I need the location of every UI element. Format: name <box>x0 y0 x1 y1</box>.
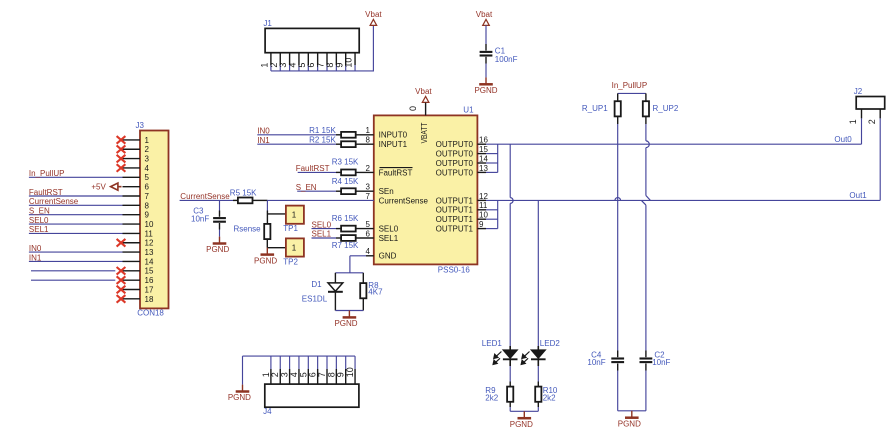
svg-text:9: 9 <box>145 211 150 220</box>
svg-text:10: 10 <box>344 58 354 68</box>
J3 pin 18 stub <box>123 298 141 300</box>
wire J4 bus <box>243 355 356 357</box>
svg-text:PGND: PGND <box>228 393 251 402</box>
svg-text:SEL0: SEL0 <box>379 225 399 234</box>
svg-text:10: 10 <box>345 367 355 377</box>
J1 pin 9 stub <box>345 53 347 65</box>
resistor R8 <box>362 273 364 283</box>
wire GND tee to D1 and R8 <box>335 272 363 274</box>
svg-text:R7 15K: R7 15K <box>332 241 359 250</box>
wire Out1 down to LED2 <box>537 200 539 346</box>
wire TP2 connection <box>267 247 286 249</box>
svg-text:1: 1 <box>292 244 297 253</box>
LED1 emission arrows <box>493 352 501 365</box>
J3 pin 6 stub <box>123 186 141 188</box>
J1 pin 4 wire to bus <box>298 65 300 71</box>
J3 pin 10 stub <box>123 223 141 225</box>
svg-text:VBATT: VBATT <box>420 123 429 144</box>
wire net IN1 to R2 <box>257 143 336 145</box>
J3 pin 14 stub <box>123 260 141 262</box>
svg-text:10: 10 <box>479 211 488 220</box>
svg-text:IN0: IN0 <box>29 244 42 253</box>
wire D1 R8 bottom rail <box>335 310 363 312</box>
wire J2 pin 2 to Out1 <box>879 118 881 200</box>
J4 pin 2 wire to bus <box>279 356 281 369</box>
svg-text:PGND: PGND <box>510 420 533 429</box>
wire In_PullUP rail <box>618 92 646 94</box>
svg-text:IN1: IN1 <box>29 253 42 262</box>
svg-text:1: 1 <box>292 211 297 220</box>
J1 pin 1 wire to bus <box>270 65 272 71</box>
svg-text:R_UP1: R_UP1 <box>582 104 608 113</box>
svg-text:OUTPUT0: OUTPUT0 <box>436 159 474 168</box>
svg-text:FaultRST: FaultRST <box>296 164 330 173</box>
J4 pin 9 stub <box>345 369 347 384</box>
resistor Rsense <box>266 211 268 225</box>
svg-text:R5 15K: R5 15K <box>230 189 257 198</box>
wire net Out0 <box>477 143 486 145</box>
J1 pin 1 stub <box>270 53 272 65</box>
svg-text:Vbat: Vbat <box>365 10 382 19</box>
svg-text:R6 15K: R6 15K <box>332 214 359 223</box>
svg-text:2: 2 <box>867 119 877 124</box>
svg-text:SEL1: SEL1 <box>29 225 49 234</box>
J4 pin 7 wire to bus <box>326 356 328 369</box>
svg-text:10nF: 10nF <box>587 358 605 367</box>
wire net FaultRST at J3 pin 7 <box>29 195 123 197</box>
wire OUTPUT0 bracket pins 15 14 13 <box>477 153 486 155</box>
wire LED1 to R9 <box>509 366 511 382</box>
J1 pin 3 wire to bus <box>289 65 291 71</box>
no-connect X on J3 pin 18 <box>117 295 126 303</box>
test point TP1 <box>286 206 304 224</box>
svg-text:IN1: IN1 <box>257 136 270 145</box>
svg-text:2: 2 <box>145 145 150 154</box>
svg-text:5: 5 <box>145 173 150 182</box>
no-connect X on J3 pin 15 <box>117 267 126 275</box>
svg-text:7: 7 <box>145 192 150 201</box>
J3 pin 5 stub <box>123 176 141 178</box>
resistor R1 <box>336 134 341 136</box>
svg-text:2: 2 <box>366 164 371 173</box>
svg-text:4: 4 <box>145 164 150 173</box>
wire R_UP2 net down to C2 <box>641 200 646 205</box>
wire U1 GND pin 4 <box>366 255 374 257</box>
ground PGND at C3 <box>219 237 221 243</box>
node CurrentSense junction at Rsense <box>266 200 268 210</box>
capacitor C2 <box>645 351 647 358</box>
LED LED1 <box>509 346 511 350</box>
resistor R_UP1 <box>617 93 619 101</box>
overline on FaultRST pin name <box>380 167 413 169</box>
capacitor C1 <box>485 44 487 51</box>
J1 pin 4 stub <box>298 53 300 65</box>
svg-text:LED1: LED1 <box>482 339 503 348</box>
ground PGND at C1 <box>485 77 487 83</box>
resistor R4 <box>336 190 341 192</box>
svg-text:S_EN: S_EN <box>29 207 50 216</box>
J1 pin 9 wire to bus <box>345 65 347 71</box>
wire R5 to U1 pin 7 <box>267 199 373 201</box>
no-connect X on J3 pin 17 <box>117 286 126 294</box>
capacitor C3 <box>219 200 221 210</box>
svg-text:2k2: 2k2 <box>543 394 556 403</box>
diode D1 ES1DL <box>334 273 336 283</box>
ground PGND at Rsense <box>266 248 268 254</box>
svg-text:9: 9 <box>479 220 484 229</box>
svg-text:OUTPUT0: OUTPUT0 <box>436 150 474 159</box>
svg-text:PGND: PGND <box>474 86 497 95</box>
svg-text:GND: GND <box>379 252 397 261</box>
svg-text:PGND: PGND <box>206 245 229 254</box>
svg-text:1: 1 <box>366 126 371 135</box>
svg-text:0: 0 <box>408 106 418 111</box>
svg-text:R1 15K: R1 15K <box>309 126 336 135</box>
connector J1 body <box>265 28 359 52</box>
svg-text:11: 11 <box>145 229 154 238</box>
op-amp U1 body PSS0-16 <box>374 115 478 264</box>
svg-text:12: 12 <box>145 239 154 248</box>
no-connect X on J3 pin 12 <box>117 239 126 247</box>
resistor R3 <box>336 171 341 173</box>
LED2 emission arrows <box>521 352 529 365</box>
svg-text:SEL0: SEL0 <box>312 220 332 229</box>
svg-text:7: 7 <box>366 192 371 201</box>
svg-text:TP2: TP2 <box>283 258 298 267</box>
svg-text:FaultRST: FaultRST <box>29 188 63 197</box>
wire net In_PullUP at J3 pin 5 <box>29 176 123 178</box>
wire net S_EN to R4 <box>297 190 336 192</box>
svg-text:11: 11 <box>479 201 488 210</box>
svg-text:R2 15K: R2 15K <box>309 136 336 145</box>
svg-text:Out0: Out0 <box>834 135 852 144</box>
svg-text:15: 15 <box>145 267 154 276</box>
J3 pin 8 stub <box>123 204 141 206</box>
J3 pin 11 stub <box>123 232 141 234</box>
svg-text:OUTPUT1: OUTPUT1 <box>436 225 474 234</box>
wire OUTPUT1 bracket pins 11 10 9 <box>477 209 486 211</box>
J3 pin 17 stub <box>123 289 141 291</box>
svg-text:+5V: +5V <box>91 182 106 191</box>
J4 pin 8 stub <box>335 369 337 384</box>
svg-text:10nF: 10nF <box>652 358 670 367</box>
svg-text:17: 17 <box>145 285 154 294</box>
J4 pin 2 stub <box>279 369 281 384</box>
svg-text:8: 8 <box>145 201 150 210</box>
J4 pin 1 wire to bus <box>270 356 272 369</box>
J1 pin 7 wire to bus <box>326 65 328 71</box>
resistor R7 <box>336 237 341 239</box>
wire net SEL0 at J3 pin 10 <box>29 223 123 225</box>
wire stub at J3 pin 15 <box>31 270 115 272</box>
svg-text:OUTPUT1: OUTPUT1 <box>436 206 474 215</box>
J4 pin 8 wire to bus <box>335 356 337 369</box>
U1 pin 0 stub VBATT <box>425 103 427 116</box>
capacitor C4 <box>617 351 619 358</box>
svg-text:10nF: 10nF <box>191 215 209 224</box>
J1 pin 6 stub <box>317 53 319 65</box>
svg-text:PSS0-16: PSS0-16 <box>438 266 471 275</box>
wire net SEL1 at J3 pin 11 <box>29 232 123 234</box>
svg-text:15: 15 <box>479 145 488 154</box>
wire CurrentSense to R5 <box>180 199 233 201</box>
test point TP2 <box>286 238 304 256</box>
wire C1 to PGND <box>485 64 487 78</box>
J3 pin 9 stub <box>123 214 141 216</box>
svg-text:CurrentSense: CurrentSense <box>29 197 79 206</box>
ground PGND at C4 C2 <box>631 411 633 417</box>
wire Out0 down to LED1 with hop over Out1 <box>509 144 511 197</box>
svg-text:R_UP2: R_UP2 <box>653 104 679 113</box>
svg-text:TP1: TP1 <box>283 224 298 233</box>
J1 pin 8 wire to bus <box>335 65 337 71</box>
svg-text:18: 18 <box>145 295 154 304</box>
connector J2 body <box>856 97 885 110</box>
svg-text:In_PullUP: In_PullUP <box>612 81 648 90</box>
J1 pin 2 stub <box>279 53 281 65</box>
J3 pin 1 stub <box>123 139 141 141</box>
svg-text:R4 15K: R4 15K <box>332 177 359 186</box>
J2 pin 2 stub <box>879 109 881 118</box>
wire R_UP2 diagonal jog into Out1 <box>646 196 651 201</box>
connector J3 body <box>140 131 169 309</box>
svg-text:6: 6 <box>366 229 371 238</box>
J4 pin 6 wire to bus <box>317 356 319 369</box>
wire net IN1 at J3 pin 14 <box>29 260 123 262</box>
svg-text:13: 13 <box>479 164 488 173</box>
svg-text:14: 14 <box>479 154 488 163</box>
svg-text:2k2: 2k2 <box>485 394 498 403</box>
wire C3 to PGND <box>219 230 221 237</box>
svg-text:Out1: Out1 <box>849 191 867 200</box>
J3 pin 3 stub <box>123 158 141 160</box>
wire net SEL1 to R7 <box>312 237 337 239</box>
svg-text:SEn: SEn <box>379 187 394 196</box>
svg-text:D1: D1 <box>311 280 322 289</box>
svg-text:5: 5 <box>366 220 371 229</box>
no-connect X on J3 pin 4 <box>117 164 126 172</box>
J4 pin 7 stub <box>326 369 328 384</box>
wire R_UP1 net down to C4 passing Out1 <box>617 144 619 350</box>
J1 pin 8 stub <box>335 53 337 65</box>
svg-text:OUTPUT0: OUTPUT0 <box>436 168 474 177</box>
J4 pin 5 wire to bus <box>307 356 309 369</box>
wire stub at J3 pin 16 <box>31 279 115 281</box>
no-connect X on J3 pin 1 <box>117 136 126 144</box>
J3 pin 4 stub <box>123 167 141 169</box>
svg-text:In_PullUP: In_PullUP <box>29 169 65 178</box>
wire net Out1 <box>477 199 486 201</box>
J1 pin 10 stub <box>354 53 356 65</box>
wire R_UP1 to Out0 <box>617 124 619 144</box>
J1 pin 5 stub <box>307 53 309 65</box>
resistor R2 <box>336 143 341 145</box>
wire net IN0 to R1 <box>257 134 336 136</box>
svg-text:LED2: LED2 <box>540 339 561 348</box>
resistor R9 <box>509 382 511 387</box>
J2 pin 1 stub <box>861 109 863 118</box>
svg-text:PGND: PGND <box>254 256 277 265</box>
wire C4 C2 bottom rail <box>617 371 619 411</box>
no-connect X on J3 pin 2 <box>117 145 126 153</box>
resistor R_UP2 <box>645 93 647 101</box>
J4 pin 4 stub <box>298 369 300 384</box>
svg-text:CurrentSense: CurrentSense <box>379 196 429 205</box>
svg-text:16: 16 <box>479 136 488 145</box>
svg-text:1: 1 <box>145 136 150 145</box>
ground PGND at R9 R10 <box>523 411 525 417</box>
wire TP1 connection <box>267 213 286 215</box>
J1 pin 5 wire to bus <box>307 65 309 71</box>
wire net FaultRST to R3 <box>298 171 336 173</box>
svg-text:U1: U1 <box>463 106 474 115</box>
svg-text:100nF: 100nF <box>495 55 518 64</box>
svg-text:4: 4 <box>366 247 371 256</box>
wire net CurrentSense at J3 pin 8 <box>29 204 123 206</box>
svg-text:OUTPUT1: OUTPUT1 <box>436 196 474 205</box>
wire net S_EN at J3 pin 9 <box>29 214 123 216</box>
J3 pin 2 stub <box>123 148 141 150</box>
svg-text:OUTPUT1: OUTPUT1 <box>436 215 474 224</box>
LED LED2 <box>537 346 539 350</box>
svg-text:SEL0: SEL0 <box>29 216 49 225</box>
J1 pin 2 wire to bus <box>279 65 281 71</box>
J3 pin 7 stub <box>123 195 141 197</box>
J4 pin 9 wire to bus <box>345 356 347 369</box>
svg-text:IN0: IN0 <box>257 127 270 136</box>
svg-text:1: 1 <box>848 119 858 124</box>
svg-text:16: 16 <box>145 276 154 285</box>
svg-text:10: 10 <box>145 220 154 229</box>
wire net SEL0 to R6 <box>312 228 337 230</box>
ground PGND at D1 R8 <box>348 311 350 317</box>
svg-text:J1: J1 <box>263 19 272 28</box>
J4 pin 5 stub <box>307 369 309 384</box>
svg-text:6: 6 <box>145 183 150 192</box>
svg-text:14: 14 <box>145 257 154 266</box>
no-connect X on J3 pin 16 <box>117 276 126 284</box>
svg-text:R3 15K: R3 15K <box>332 158 359 167</box>
svg-text:8: 8 <box>366 136 371 145</box>
svg-text:OUTPUT0: OUTPUT0 <box>436 140 474 149</box>
svg-text:ES1DL: ES1DL <box>302 295 328 304</box>
svg-text:J3: J3 <box>136 121 145 130</box>
J3 pin 15 stub <box>123 270 141 272</box>
wire J1 bus to Vbat <box>271 70 374 72</box>
svg-text:SEL1: SEL1 <box>312 230 332 239</box>
resistor R6 <box>336 228 341 230</box>
J1 pin 7 stub <box>326 53 328 65</box>
svg-text:Rsense: Rsense <box>234 224 262 233</box>
svg-text:FaultRST: FaultRST <box>379 168 413 177</box>
J4 pin 6 stub <box>317 369 319 384</box>
no-connect X on J3 pin 3 <box>117 155 126 163</box>
resistor R5 <box>233 199 238 201</box>
wire Vbat to C1 <box>485 25 487 44</box>
J1 pin 3 stub <box>289 53 291 65</box>
J3 pin 12 stub <box>123 242 141 244</box>
svg-text:Vbat: Vbat <box>476 10 493 19</box>
svg-text:13: 13 <box>145 248 154 257</box>
svg-text:Vbat: Vbat <box>415 87 432 96</box>
connector J4 body <box>265 384 359 407</box>
wire J2 pin 1 to Out0 <box>861 118 863 144</box>
J4 pin 10 wire to bus <box>354 356 356 369</box>
svg-text:CurrentSense: CurrentSense <box>180 192 230 201</box>
svg-text:INPUT1: INPUT1 <box>379 140 408 149</box>
wire LED2 to R10 <box>537 366 539 382</box>
svg-text:CON18: CON18 <box>137 309 164 318</box>
J4 pin 4 wire to bus <box>298 356 300 369</box>
svg-text:12: 12 <box>479 192 488 201</box>
svg-text:J4: J4 <box>263 407 272 416</box>
resistor R10 <box>537 382 539 387</box>
J3 pin 16 stub <box>123 279 141 281</box>
svg-text:PGND: PGND <box>334 319 357 328</box>
J1 pin 6 wire to bus <box>317 65 319 71</box>
J3 pin 13 stub <box>123 251 141 253</box>
svg-text:S_EN: S_EN <box>296 183 317 192</box>
svg-text:PGND: PGND <box>618 419 641 428</box>
wire R9 R10 bottom rail <box>509 407 511 411</box>
J4 pin 1 stub <box>270 369 272 384</box>
ground PGND at J4 <box>242 385 244 391</box>
J1 pin 10 wire to bus <box>354 65 356 71</box>
svg-text:SEL1: SEL1 <box>379 234 399 243</box>
wire R_UP2 crossing Out0 with hop <box>645 124 647 141</box>
svg-text:J2: J2 <box>854 87 863 96</box>
J4 pin 3 stub <box>289 369 291 384</box>
svg-text:3: 3 <box>145 155 150 164</box>
J4 pin 3 wire to bus <box>289 356 291 369</box>
wire net IN0 at J3 pin 13 <box>29 251 123 253</box>
svg-text:INPUT0: INPUT0 <box>379 131 408 140</box>
svg-text:4K7: 4K7 <box>368 288 383 297</box>
svg-text:3: 3 <box>366 183 371 192</box>
+5V supply arrow at J3 pin 6 <box>111 183 118 190</box>
J4 pin 10 stub <box>354 369 356 384</box>
